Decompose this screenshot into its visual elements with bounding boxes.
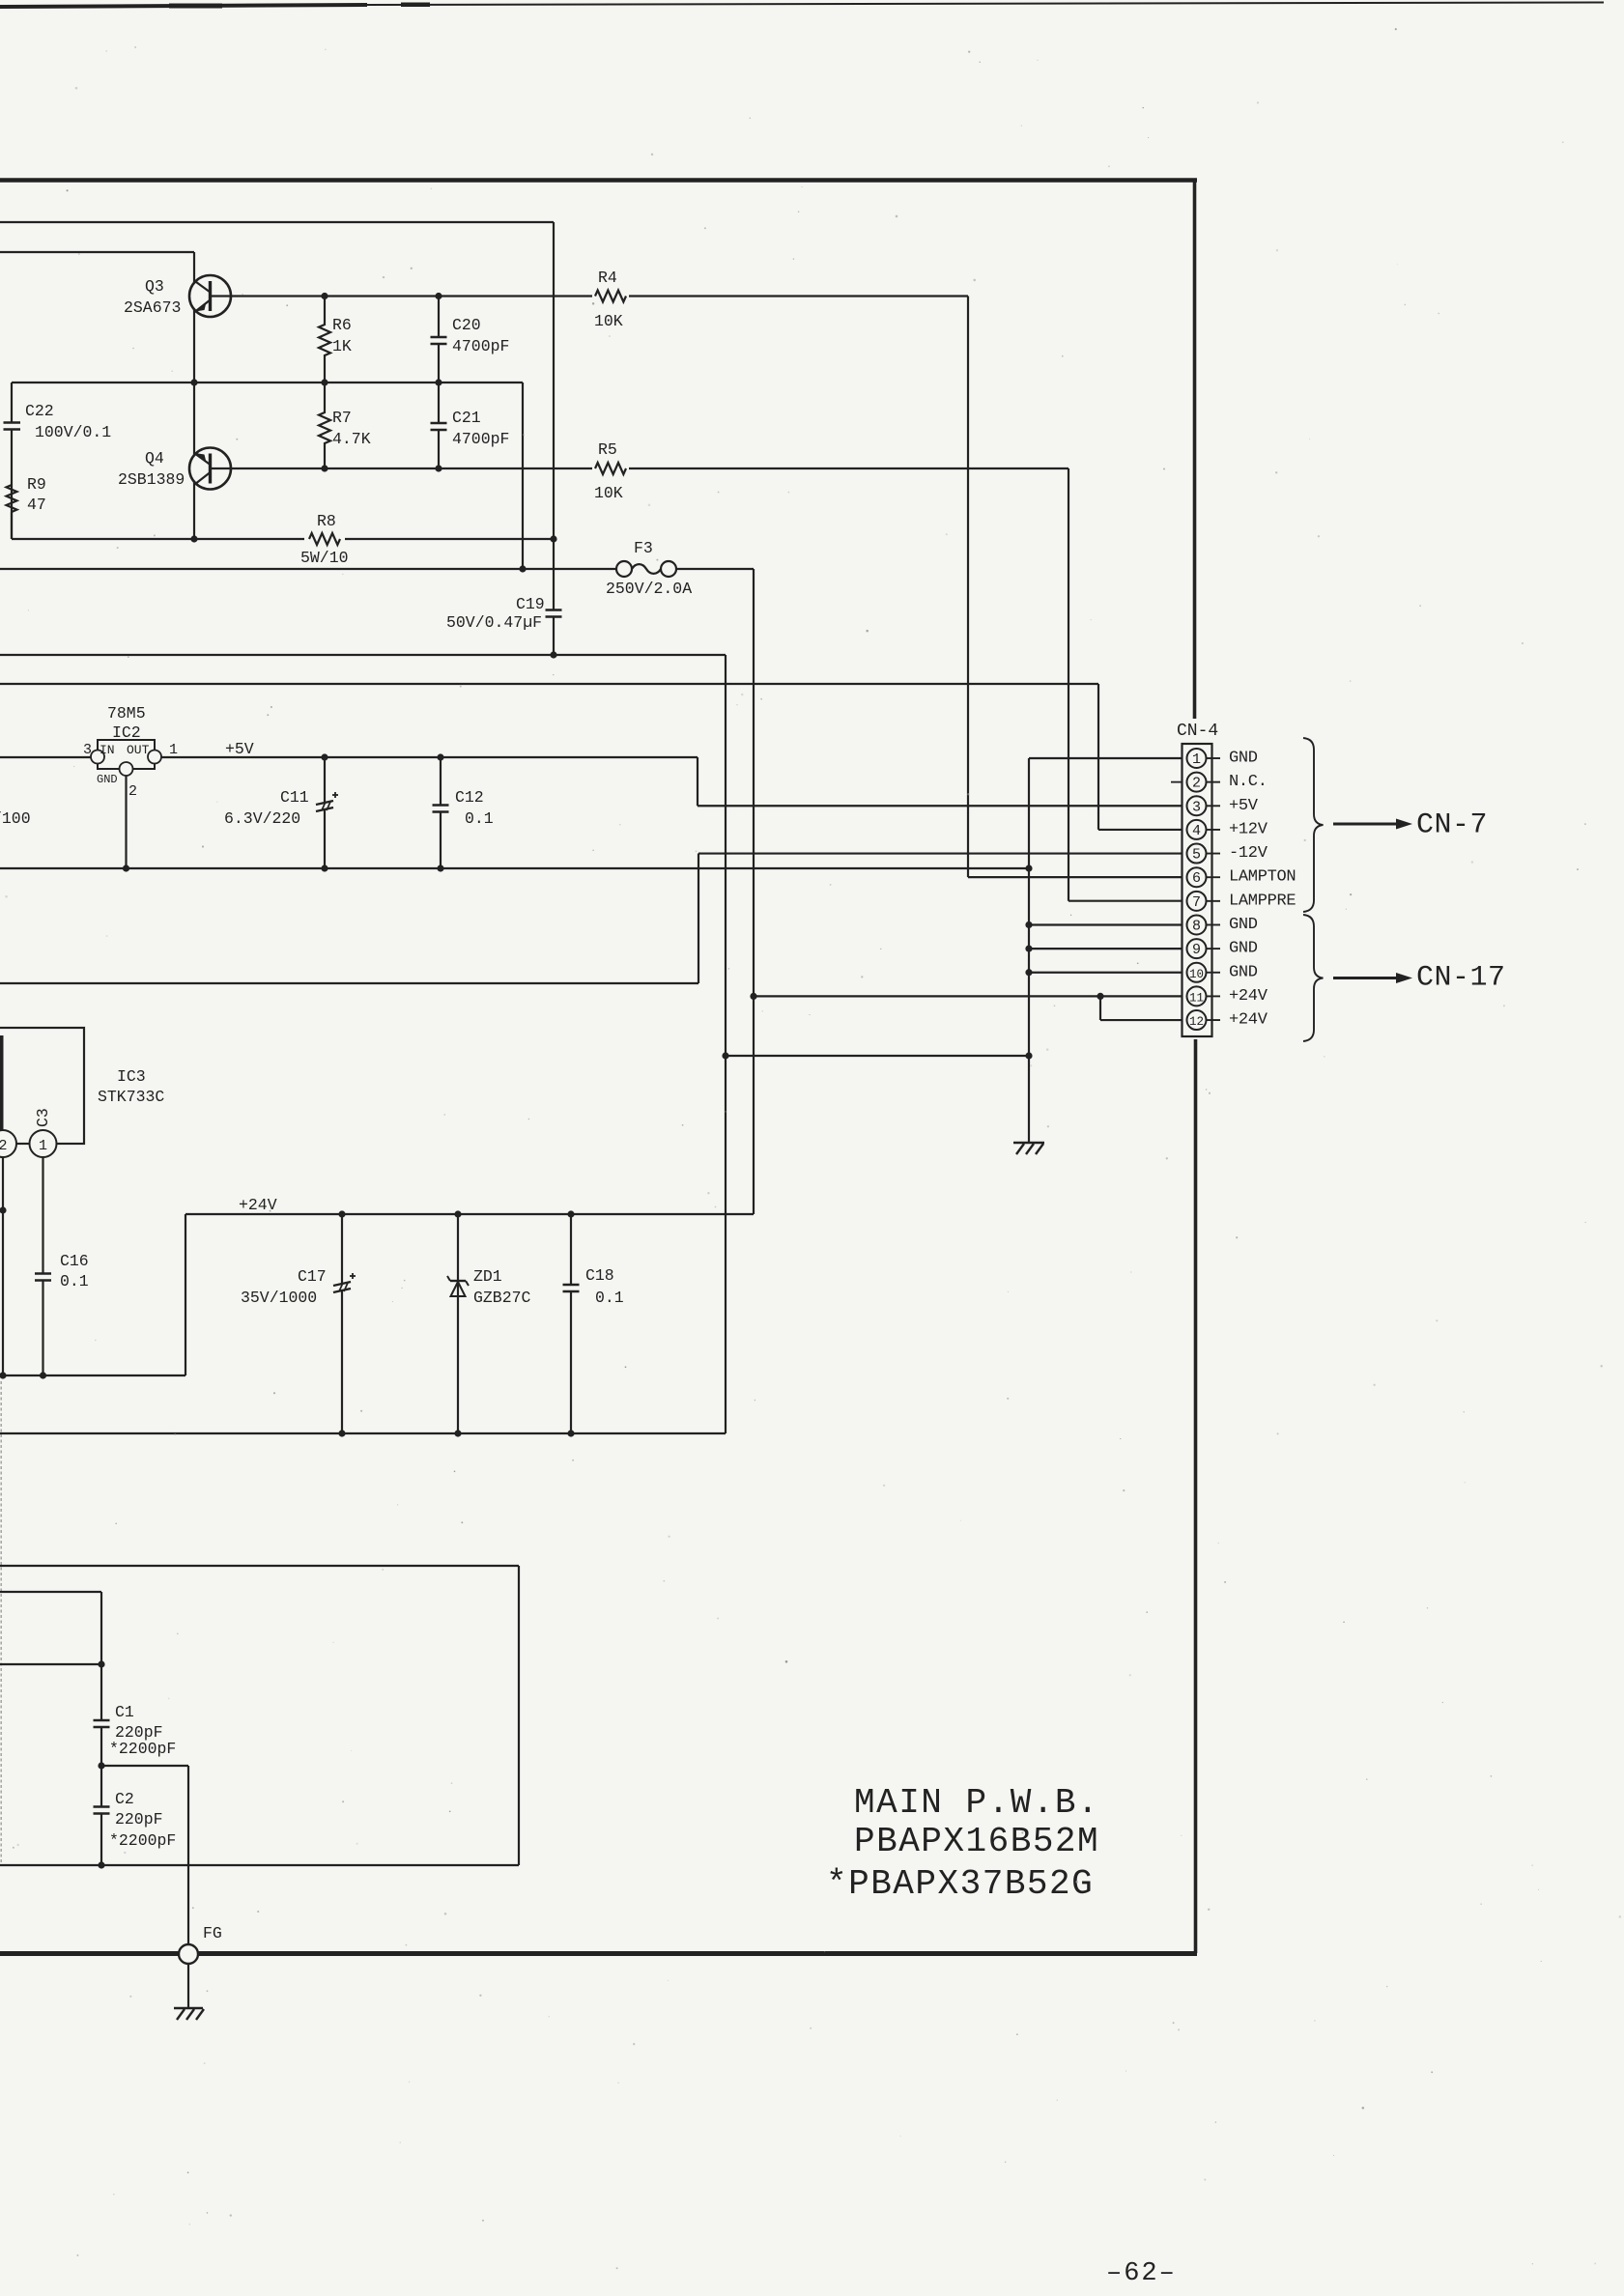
svg-text:C20: C20: [452, 316, 481, 334]
capacitor C20: [431, 297, 447, 383]
CN-4 pin 4 circle: [1187, 820, 1207, 839]
label IC3: [117, 1067, 146, 1086]
node C18 bottom: [567, 1430, 574, 1436]
wire filter feed upper: [0, 1592, 101, 1664]
CN-4 pin 10 circle: [1187, 963, 1207, 982]
node R6 bottom: [321, 379, 328, 385]
label R4: [598, 269, 617, 287]
label C20 value 4700pF: [452, 337, 509, 355]
wire filter feed lower: [0, 1663, 101, 1665]
svg-text:C16: C16: [60, 1252, 89, 1270]
node middle rail / C21 box: [519, 565, 526, 572]
CN-4 pin 7 circle: [1187, 892, 1207, 911]
svg-text:2: 2: [0, 1138, 8, 1154]
svg-text:250V/2.0A: 250V/2.0A: [606, 580, 692, 598]
IC IC2 body (78M5 regulator): [98, 740, 155, 769]
resistor R8: [309, 533, 340, 545]
CN-4 pin 6 tick: [1207, 876, 1221, 878]
label C19 value: [446, 613, 542, 632]
IC3 pin 2 circle: [0, 1130, 16, 1157]
svg-text:12: 12: [1189, 1015, 1204, 1029]
svg-text:OUT: OUT: [127, 743, 150, 757]
node IC3 pin2 bottom: [0, 1372, 7, 1378]
label page number -62-: [1106, 2259, 1177, 2288]
label CN-7: [1416, 809, 1488, 842]
transistor Q4: [189, 448, 231, 490]
svg-text:+5V: +5V: [225, 740, 254, 758]
node C16 bottom: [40, 1372, 46, 1378]
svg-text:1: 1: [1192, 751, 1201, 768]
ground (chassis) under FG: [174, 2008, 204, 2020]
capacitor C1: [94, 1664, 110, 1766]
svg-text:ZD1: ZD1: [473, 1267, 502, 1286]
wire R5 to pin7 (LAMPPRE): [1068, 468, 1188, 901]
svg-text:1K: 1K: [332, 337, 352, 355]
label *PBAPX37B52G: [826, 1864, 1094, 1904]
label IC2 pin1: [169, 742, 178, 758]
label R9 value 47: [27, 496, 46, 514]
label IC2 pin2: [128, 783, 137, 800]
capacitor C17 (electrolytic): [333, 1214, 356, 1433]
label ZD1 value GZB27C: [473, 1289, 531, 1307]
label PBAPX16B52M: [854, 1822, 1099, 1861]
svg-text:2: 2: [128, 783, 137, 800]
wire FG to chassis ground: [187, 1964, 189, 2008]
svg-text:220pF: 220pF: [115, 1810, 163, 1828]
wire pin11 (+24V): [754, 995, 1188, 997]
label R5: [598, 440, 617, 459]
svg-text:4700pF: 4700pF: [452, 430, 509, 448]
svg-text:LAMPTON: LAMPTON: [1229, 868, 1296, 887]
svg-text:CN-7: CN-7: [1416, 809, 1488, 842]
label C21 value 4700pF: [452, 430, 509, 448]
capacitor C12: [433, 757, 449, 868]
label CN-4 pin 1 net GND: [1229, 750, 1258, 768]
svg-text:MAIN P.W.B.: MAIN P.W.B.: [854, 1783, 1099, 1823]
wire 24V section ground rail: [0, 1432, 726, 1434]
CN-4 pin 12 circle: [1187, 1010, 1207, 1030]
resistor R4: [595, 291, 626, 302]
label CN-4 pin 9 net GND: [1229, 940, 1258, 958]
wire +12V rail to pin4: [0, 684, 1188, 830]
label MAIN P.W.B.: [854, 1783, 1099, 1823]
transistor Q3: [189, 275, 231, 317]
label 2SB1389: [118, 470, 185, 489]
diode ZD1 (zener): [447, 1214, 469, 1433]
resistor R6: [319, 297, 330, 383]
node C12 bottom: [437, 865, 443, 871]
svg-text:10: 10: [1189, 968, 1204, 981]
svg-text:*2200pF: *2200pF: [109, 1831, 176, 1850]
svg-text:LAMPPRE: LAMPPRE: [1229, 892, 1296, 910]
svg-text:1: 1: [39, 1138, 47, 1154]
svg-text:0.1: 0.1: [595, 1289, 624, 1307]
svg-text:R9: R9: [27, 475, 46, 494]
svg-text:STK733C: STK733C: [98, 1088, 164, 1106]
label R6 value 1K: [332, 337, 352, 355]
svg-text:-12V: -12V: [1229, 844, 1268, 863]
svg-text:R8: R8: [317, 512, 336, 530]
svg-text:IC2: IC2: [112, 723, 141, 742]
node R8 line to C19 column: [550, 535, 556, 542]
IC3 pin 1 circle: [30, 1130, 57, 1157]
label F3: [634, 539, 653, 557]
svg-text:5: 5: [1192, 847, 1201, 864]
wire ground rail: [0, 867, 1029, 869]
svg-text:GND: GND: [1229, 916, 1258, 934]
label C2: [115, 1790, 134, 1808]
wire input to IC2 pin3: [0, 756, 91, 758]
node C18 top: [567, 1210, 574, 1217]
svg-text:Q3: Q3: [145, 277, 164, 296]
label R5 value 10K: [594, 484, 623, 502]
node C20 top: [435, 293, 442, 299]
label R9: [27, 475, 46, 494]
svg-text:R5: R5: [598, 440, 617, 459]
svg-text:11: 11: [1189, 991, 1204, 1005]
svg-text:C1: C1: [115, 1703, 134, 1721]
label C22: [25, 402, 54, 420]
label ZD1: [473, 1267, 502, 1286]
arrow to CN-17: [1333, 973, 1412, 983]
svg-text:100V/0.1: 100V/0.1: [35, 423, 111, 441]
label C1 value 220pF: [115, 1723, 163, 1742]
wire Q3 collector feed: [0, 252, 194, 539]
node C1/C2 junction: [98, 1762, 104, 1769]
node FG (frame ground): [179, 1944, 198, 1964]
wire C19 ground run: [0, 655, 726, 1433]
label C16: [60, 1252, 89, 1270]
svg-text:F3: F3: [634, 539, 653, 557]
node gnd run tap: [722, 1052, 728, 1059]
label R4 value 10K: [594, 312, 623, 330]
capacitor C22: [4, 383, 21, 485]
label C12 value 0.1: [465, 809, 494, 828]
label IC2 pin3: [83, 742, 92, 758]
label CN-4 pin 7 net LAMPPRE: [1229, 892, 1296, 910]
label CN-17: [1416, 962, 1506, 995]
label IC2 OUT: [127, 743, 150, 757]
CN-4 pin 2 N.C. stub: [1171, 781, 1182, 783]
label C3 (rotated): [34, 1108, 52, 1127]
svg-text:FG: FG: [203, 1924, 222, 1942]
CN-4 pin 2 circle: [1187, 773, 1207, 792]
CN-4 pin 8 circle: [1187, 915, 1207, 934]
wire F3 to +24V column: [676, 569, 754, 1214]
svg-text:C12: C12: [455, 788, 484, 807]
node gnd column bottom tap: [1025, 1052, 1032, 1059]
wire pin8 (GND): [1029, 923, 1188, 925]
capacitor C21: [431, 383, 447, 468]
label R7 value 4.7K: [332, 430, 371, 448]
svg-text:GND: GND: [1229, 750, 1258, 768]
svg-text:C22: C22: [25, 402, 54, 420]
svg-text:0.1: 0.1: [60, 1272, 89, 1290]
svg-text:/100: /100: [0, 809, 31, 828]
IC2 pin 3 circle: [91, 751, 104, 764]
node pin12 jog tap: [1097, 993, 1103, 1000]
CN-4 pin 3 tick: [1207, 805, 1221, 807]
label IC2 IN: [100, 743, 115, 757]
node C20 bottom: [435, 379, 442, 385]
label R8 value 5W/10: [300, 549, 349, 567]
wire R4 to pin6 (LAMPTON): [968, 297, 1188, 878]
node C1 top junction: [98, 1660, 104, 1667]
CN-4 pin 9 circle: [1187, 939, 1207, 958]
CN-4 pin 8 tick: [1207, 923, 1221, 925]
wire IC2 GND to ground rail: [125, 776, 127, 868]
svg-text:7: 7: [1192, 894, 1201, 911]
label CN-4 pin 4 net +12V: [1229, 820, 1268, 838]
brace CN-17 group: [1303, 915, 1324, 1041]
wire +24V rail: [3, 1214, 754, 1375]
node C11 bottom: [321, 865, 328, 871]
CN-4 pin 1 circle: [1187, 749, 1207, 768]
label C2 alt value *2200pF: [109, 1831, 176, 1850]
wire C1-C2 junction to FG: [101, 1766, 188, 1944]
svg-text:+24V: +24V: [239, 1196, 277, 1214]
svg-text:+12V: +12V: [1229, 820, 1268, 838]
brace CN-7 group: [1303, 738, 1324, 912]
svg-text:2SB1389: 2SB1389: [118, 470, 185, 489]
svg-text:IN: IN: [100, 743, 115, 757]
label +5V: [225, 740, 254, 758]
label C18: [585, 1266, 614, 1285]
label FG: [203, 1924, 222, 1942]
fuse F3: [616, 561, 676, 577]
svg-text:Q4: Q4: [145, 449, 164, 468]
capacitor C16: [35, 1157, 51, 1375]
svg-text:78M5: 78M5: [107, 704, 146, 723]
node C19 bottom: [550, 651, 556, 658]
svg-text:2: 2: [1192, 776, 1201, 792]
node C2 bottom: [98, 1861, 104, 1868]
svg-text:GND: GND: [97, 773, 118, 786]
svg-text:R7: R7: [332, 409, 352, 427]
wire +5V rail: [161, 757, 1188, 806]
label CN-4 pin 3 net +5V: [1229, 797, 1259, 815]
label C11: [280, 788, 309, 807]
IC2 GND pin circle: [120, 762, 133, 776]
wire -12V rail to pin5: [0, 854, 1188, 983]
svg-text:C21: C21: [452, 409, 481, 427]
svg-text:*PBAPX37B52G: *PBAPX37B52G: [826, 1864, 1094, 1904]
resistor R7: [319, 383, 330, 468]
svg-text:47: 47: [27, 496, 46, 514]
svg-text:+5V: +5V: [1229, 797, 1259, 815]
svg-text:3: 3: [83, 742, 92, 758]
wire top bus to C19 column: [0, 222, 554, 539]
CN-4 pin 11 circle: [1187, 986, 1207, 1006]
svg-text:CN-17: CN-17: [1416, 962, 1506, 995]
label C21: [452, 409, 481, 427]
CN-4 pin 6 circle: [1187, 867, 1207, 887]
wire pin10 (GND): [1029, 972, 1188, 974]
svg-text:C2: C2: [115, 1790, 134, 1808]
label CN-4: [1177, 722, 1218, 741]
svg-text:*2200pF: *2200pF: [109, 1740, 176, 1758]
label C17 value 35V/1000: [241, 1289, 317, 1307]
wire Q3 base rail: [211, 295, 969, 297]
svg-text:C11: C11: [280, 788, 309, 807]
label CN-4 pin 10 net GND: [1229, 963, 1258, 981]
wire pin9 (GND): [1029, 948, 1188, 950]
svg-text:6.3V/220: 6.3V/220: [224, 809, 300, 828]
svg-text:IC3: IC3: [117, 1067, 146, 1086]
svg-text:3: 3: [1192, 799, 1201, 815]
CN-4 pin 1 tick: [1207, 757, 1221, 759]
label C18 value 0.1: [595, 1289, 624, 1307]
svg-text:GND: GND: [1229, 940, 1258, 958]
CN-4 pin 5 tick: [1207, 853, 1221, 855]
label C12: [455, 788, 484, 807]
svg-text:C19: C19: [516, 595, 545, 613]
label R8: [317, 512, 336, 530]
svg-text:10K: 10K: [594, 312, 623, 330]
svg-text:5W/10: 5W/10: [300, 549, 349, 567]
label C22 value 100V/0.1: [35, 423, 111, 441]
node Q3 collector/Q4 junction: [190, 379, 197, 385]
svg-text:C3: C3: [34, 1108, 52, 1127]
svg-text:8: 8: [1192, 918, 1201, 934]
svg-text:+24V: +24V: [1229, 1011, 1268, 1030]
IC2 pin 1 circle: [148, 751, 161, 764]
node ZD1 bottom: [454, 1430, 461, 1436]
svg-text:N.C.: N.C.: [1229, 773, 1268, 791]
label R7: [332, 409, 352, 427]
CN-4 pin 7 tick: [1207, 900, 1221, 902]
svg-text:1: 1: [169, 742, 178, 758]
CN-4 pin 5 circle: [1187, 844, 1207, 864]
CN-4 pin 3 circle: [1187, 796, 1207, 815]
wire pin12 (+24V) jog: [1100, 996, 1188, 1020]
node ground rail end: [1025, 865, 1032, 871]
node pin8 tap: [1025, 921, 1032, 928]
label C11 value 6.3V/220: [224, 809, 300, 828]
CN-4 pin 11 tick: [1207, 995, 1221, 997]
wire R8 rail: [12, 485, 554, 539]
label CN-4 pin 11 net +24V: [1229, 987, 1268, 1006]
label C1 alt value *2200pF: [109, 1740, 176, 1758]
svg-text:4.7K: 4.7K: [332, 430, 371, 448]
wire gnd run to GND column: [726, 1055, 1029, 1057]
CN-4 pin 2 tick: [1207, 781, 1221, 783]
wire pin1 (GND) to ground column: [1029, 758, 1188, 1143]
IC3 body (STK733C): [0, 1028, 84, 1144]
svg-text:0.1: 0.1: [465, 809, 494, 828]
label Q3: [145, 277, 164, 296]
CN-4 pin 9 tick: [1207, 948, 1221, 950]
label 2SA673: [124, 298, 181, 317]
svg-text:PBAPX16B52M: PBAPX16B52M: [854, 1822, 1099, 1861]
node R7 bottom: [321, 465, 328, 471]
node ZD1 top: [454, 1210, 461, 1217]
capacitor C18: [563, 1214, 580, 1433]
node IC3 pin2 tap: [0, 1206, 7, 1213]
svg-text:4700pF: 4700pF: [452, 337, 509, 355]
node C12 top: [437, 753, 443, 760]
label CN-4 pin 5 net -12V: [1229, 844, 1268, 863]
CN-4 pin 10 tick: [1207, 972, 1221, 974]
arrow to CN-7: [1333, 819, 1412, 830]
label +24V rail: [239, 1196, 277, 1214]
svg-text:+24V: +24V: [1229, 987, 1268, 1006]
label CN-4 pin 8 net GND: [1229, 916, 1258, 934]
node IC2 gnd: [123, 865, 129, 871]
label CN-4 pin 2 net N.C.: [1229, 773, 1268, 791]
label CN-4 pin 12 net +24V: [1229, 1011, 1268, 1030]
node C17 top: [338, 1210, 345, 1217]
node pin9 tap: [1025, 946, 1032, 952]
node R6 top: [321, 293, 328, 299]
label /100 (cut off): [0, 809, 31, 828]
label Q4: [145, 449, 164, 468]
label CN-4 pin 6 net LAMPTON: [1229, 868, 1296, 887]
label C1: [115, 1703, 134, 1721]
label 78M5: [107, 704, 146, 723]
label IC2: [112, 723, 141, 742]
svg-text:GZB27C: GZB27C: [473, 1289, 531, 1307]
line-filter box: [0, 1566, 519, 1865]
svg-text:2SA673: 2SA673: [124, 298, 181, 317]
node C17 bottom: [338, 1430, 345, 1436]
svg-text:50V/0.47µF: 50V/0.47µF: [446, 613, 542, 632]
svg-text:R4: R4: [598, 269, 617, 287]
capacitor C19: [546, 539, 562, 655]
CN-4 pin 12 tick: [1207, 1019, 1221, 1021]
wire Q4 base rail: [211, 468, 1069, 469]
node C21 bottom: [435, 465, 442, 471]
svg-text:R6: R6: [332, 316, 352, 334]
wire Q3/Q4 middle rail: [12, 383, 523, 569]
label C2 value 220pF: [115, 1810, 163, 1828]
label C19: [516, 595, 545, 613]
label IC2 GND: [97, 773, 118, 786]
node pin10 tap: [1025, 969, 1032, 976]
label C16 value 0.1: [60, 1272, 89, 1290]
label F3 value 250V/2.0A: [606, 580, 692, 598]
label R6: [332, 316, 352, 334]
wire IC3 pin2 column: [2, 1157, 4, 1375]
svg-text:C18: C18: [585, 1266, 614, 1285]
svg-text:10K: 10K: [594, 484, 623, 502]
svg-text:C17: C17: [298, 1267, 327, 1286]
ground (chassis) under GND column: [1013, 1143, 1044, 1154]
svg-text:CN-4: CN-4: [1177, 722, 1218, 741]
resistor R9: [7, 485, 17, 539]
svg-text:9: 9: [1192, 942, 1201, 958]
node C11 top: [321, 753, 328, 760]
svg-text:GND: GND: [1229, 963, 1258, 981]
label STK733C: [98, 1088, 164, 1106]
capacitor C11 (electrolytic): [316, 757, 338, 868]
capacitor C2: [94, 1766, 110, 1865]
CN-4 pin 4 tick: [1207, 829, 1221, 831]
svg-text:6: 6: [1192, 870, 1201, 887]
connector CN-4 body: [1182, 744, 1212, 1036]
node base-line to R8 line: [190, 535, 197, 542]
node +24V column tap: [750, 993, 756, 1000]
label C20: [452, 316, 481, 334]
svg-text:35V/1000: 35V/1000: [241, 1289, 317, 1307]
svg-text:–62–: –62–: [1106, 2259, 1177, 2288]
label C17: [298, 1267, 327, 1286]
wire AC feed to fuse F3: [0, 568, 616, 570]
resistor R5: [595, 463, 626, 474]
svg-text:4: 4: [1192, 823, 1201, 839]
